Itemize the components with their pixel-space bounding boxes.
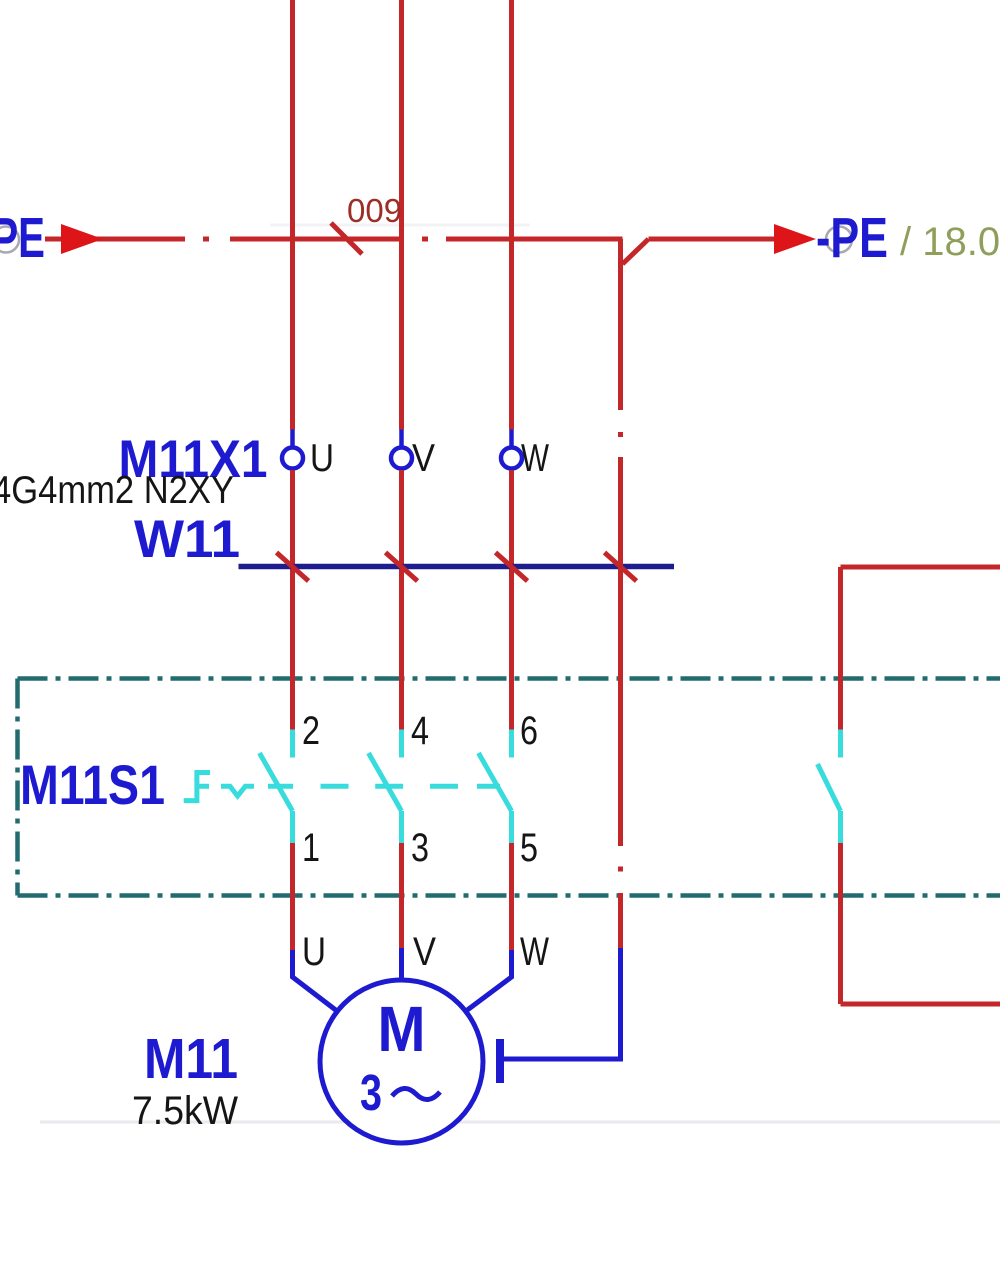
motor M11 circle: [320, 980, 483, 1143]
PE drop wire blue to motor: [504, 948, 621, 1059]
PE arrow right: [774, 224, 816, 254]
motor tilde wave: [392, 1088, 440, 1099]
branch rectangle left wire lower: [838, 843, 843, 1004]
motor lead W blue: [466, 950, 512, 1011]
branch rectangle left wire upper: [838, 567, 843, 730]
motor lead V blue: [399, 948, 404, 980]
PE bus dash-dot wire segment left: [45, 237, 185, 242]
svg-text:4G4mm2 N2XY: 4G4mm2 N2XY: [0, 469, 234, 512]
terminal X1:W circle: [501, 448, 522, 469]
svg-text:3: 3: [411, 826, 429, 870]
wire L1 mid segment: [290, 470, 295, 730]
switch actuator symbol: [184, 773, 210, 801]
wire L3 mid segment: [509, 470, 514, 730]
svg-text:4: 4: [411, 709, 429, 753]
svg-text:7.5kW: 7.5kW: [132, 1089, 238, 1133]
wire L2 phase upper segment: [399, 0, 404, 430]
terminal X1:V stub blue: [399, 430, 404, 450]
cable slash on L3: [496, 553, 528, 582]
svg-text:W11: W11: [134, 510, 240, 569]
cable slash on L1: [277, 553, 309, 582]
branch rectangle top wire: [841, 565, 1000, 570]
switch enclosure dash-dot bottom: [18, 893, 1000, 898]
cable slash on PE drop: [605, 553, 637, 582]
PE bus dot 1: [203, 237, 209, 242]
svg-text:W: W: [521, 437, 549, 480]
PE bus junction jog diagonal: [623, 239, 649, 264]
svg-text:-PE: -PE: [0, 206, 45, 270]
branch rectangle bottom wire: [841, 1002, 1000, 1007]
motor PE terminal bar: [496, 1039, 504, 1083]
PE interruption circle right (grey): [826, 227, 852, 253]
switch actuator wave: [221, 786, 254, 796]
svg-text:V: V: [413, 930, 436, 974]
svg-text:/ 18.0: / 18.0: [900, 220, 1000, 264]
switch enclosure dash-dot top: [18, 676, 1000, 681]
svg-text:U: U: [302, 930, 326, 974]
svg-text:1: 1: [302, 826, 320, 870]
PE bus dot 2: [422, 237, 428, 242]
switch pole 2: [369, 730, 402, 844]
PE arrow left: [61, 224, 103, 254]
cable slash on L2: [386, 553, 418, 582]
wire L2 mid segment: [399, 470, 404, 730]
wire L2 lower red: [399, 843, 404, 948]
switch pole 3: [479, 730, 512, 844]
svg-text:U: U: [310, 437, 334, 480]
terminal X1:W stub blue: [509, 430, 514, 450]
PE bus wire segment right: [649, 237, 777, 242]
svg-text:M11S1: M11S1: [20, 753, 165, 816]
wire L1 lower red: [290, 843, 295, 950]
svg-text:6: 6: [520, 709, 538, 753]
svg-text:5: 5: [520, 826, 538, 870]
terminal X1:U stub blue: [290, 430, 295, 450]
PE bus dash 3 to junction: [446, 237, 623, 242]
slash mark 009 on PE bus: [331, 223, 362, 254]
svg-text:-PE: -PE: [816, 206, 888, 270]
wire L3 phase upper segment: [509, 0, 514, 430]
svg-text:V: V: [412, 437, 435, 480]
wire L3 lower red: [509, 843, 514, 950]
motor lead U blue: [293, 950, 338, 1011]
svg-text:009: 009: [347, 192, 402, 229]
terminal X1:V circle: [391, 448, 412, 469]
svg-text:W: W: [520, 930, 549, 974]
svg-text:M11: M11: [144, 1027, 238, 1091]
switch enclosure dash-dot left: [15, 679, 20, 896]
cable W11 line: [239, 564, 675, 570]
PE drop wire lower red: [618, 893, 623, 948]
svg-text:3: 3: [360, 1064, 382, 1121]
svg-text:2: 2: [302, 709, 320, 753]
PE interruption circle left (grey): [0, 227, 19, 253]
switch pole 1: [260, 730, 293, 844]
PE drop wire mid: [618, 457, 623, 846]
svg-text:M: M: [378, 993, 426, 1065]
faint artifact line lower: [40, 1121, 1000, 1124]
PE drop dot 1: [618, 432, 623, 437]
switch pole 4: [818, 730, 841, 844]
PE drop dot 2: [618, 867, 623, 872]
wire L1 phase upper segment: [290, 0, 295, 430]
switch linkage dashed line: [268, 784, 500, 789]
PE drop wire upper: [618, 239, 623, 410]
faint artifact line upper: [270, 224, 530, 227]
PE bus dash 2: [230, 237, 402, 242]
terminal X1:U circle: [282, 448, 303, 469]
